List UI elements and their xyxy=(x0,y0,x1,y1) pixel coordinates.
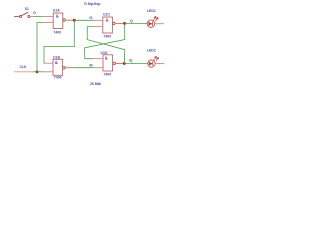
NAND gate U1A xyxy=(53,13,74,29)
svg-text:JK MkII: JK MkII xyxy=(90,82,101,86)
pin stub U1C in2 xyxy=(93,26,103,28)
wire CLK rail to U1A in2 xyxy=(37,22,44,71)
LED1 arrows xyxy=(153,16,158,21)
svg-text:U1C: U1C xyxy=(103,12,110,16)
NAND gate U1B xyxy=(53,59,73,75)
pin stub U1D out xyxy=(116,62,125,64)
pin stub U1B in2 xyxy=(44,71,54,73)
wire /R to U1D in2 xyxy=(73,67,93,69)
pin stub S1 right xyxy=(30,16,34,18)
svg-text:CLK: CLK xyxy=(20,65,28,69)
wire /Q cross-coupling to U1C in2 xyxy=(87,27,125,64)
svg-text:Q: Q xyxy=(130,19,133,23)
svg-text:D flip-flop: D flip-flop xyxy=(84,2,101,6)
svg-text:&: & xyxy=(106,17,109,22)
pin stub U1A in1 xyxy=(44,16,54,18)
svg-text:7400: 7400 xyxy=(54,76,62,80)
wire /Q to LED2 xyxy=(124,63,148,65)
svg-text:U1B: U1B xyxy=(53,55,60,59)
pin stub U1D in1 xyxy=(94,58,104,60)
LED D1 xyxy=(147,16,164,27)
wire CLK to U1B xyxy=(33,71,44,73)
wire /S down to U1B in1 xyxy=(44,20,75,63)
NAND gate U1D xyxy=(103,55,124,71)
junction node CLK xyxy=(36,70,39,73)
pin stub U1C out xyxy=(115,22,125,24)
switch S1 xyxy=(14,12,30,17)
pin stub U1C in1 xyxy=(93,19,103,21)
bubble U1A xyxy=(63,19,66,22)
junction node /S xyxy=(73,19,76,22)
junction node Q xyxy=(123,22,126,25)
svg-text:/Q: /Q xyxy=(129,58,133,62)
svg-text:&: & xyxy=(105,56,108,61)
NAND gate U1C xyxy=(103,17,125,33)
bubble U1D xyxy=(113,62,116,65)
pin stub U1D in2 xyxy=(94,67,104,69)
wire /S to U1C xyxy=(74,19,93,21)
svg-text:&: & xyxy=(56,14,59,19)
junction node /Q xyxy=(123,62,126,65)
pin stub U1A in2 xyxy=(44,21,54,23)
bubble U1B xyxy=(63,66,66,69)
wire D net xyxy=(34,16,44,18)
bubble U1C xyxy=(112,22,115,25)
svg-text:7400: 7400 xyxy=(103,73,111,77)
pin stub U1B in1 xyxy=(44,62,54,64)
svg-text:U1D: U1D xyxy=(101,51,108,55)
pin stub U1B out xyxy=(65,67,73,69)
wire CLK left segment xyxy=(14,71,33,73)
wire Q to LED1 xyxy=(125,23,148,25)
svg-text:S1: S1 xyxy=(25,7,29,11)
svg-text:LED2: LED2 xyxy=(147,48,156,52)
svg-text:LED1: LED1 xyxy=(147,9,156,13)
svg-text:D: D xyxy=(33,11,36,15)
svg-text:7400: 7400 xyxy=(53,30,61,34)
svg-text:&: & xyxy=(55,60,58,65)
svg-text:U1A: U1A xyxy=(53,8,60,12)
LED2 arrows xyxy=(154,56,159,61)
LED D2 xyxy=(148,56,165,67)
wire Q cross-coupling to U1D in1 xyxy=(85,23,125,58)
pin stub U1A out xyxy=(65,19,74,21)
svg-text:7400: 7400 xyxy=(103,34,111,38)
